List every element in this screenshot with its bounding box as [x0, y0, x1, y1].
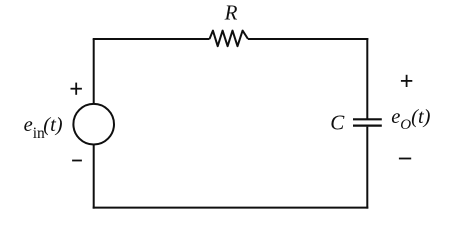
wire: right vertical lower segment (capacitor bottom plate to bottom-right corner) [366, 127, 368, 209]
minus sign (source, left) [72, 160, 82, 162]
voltage source e_in (circle) [73, 104, 114, 145]
wire: top horizontal left segment (top-left corner to resistor) [93, 38, 210, 40]
minus sign (capacitor, right) [399, 158, 411, 160]
wire: bottom horizontal (bottom-right corner to bottom-left corner) [93, 207, 369, 209]
wire: left vertical lower segment (bottom-left corner to source bottom) [93, 144, 95, 208]
wire: left vertical upper segment (source top to top-left corner) [93, 39, 95, 104]
svg-text:C: C [330, 111, 345, 135]
wire: top horizontal right segment (resistor to top-right corner) [248, 38, 368, 40]
capacitor C bottom plate [353, 124, 382, 126]
wire: right vertical upper segment (top-right corner to capacitor top plate) [366, 38, 368, 119]
resistor R (zigzag) [210, 31, 249, 47]
plus sign (source, left) [71, 83, 82, 95]
plus sign (capacitor, right) [401, 75, 412, 87]
svg-text:R: R [224, 1, 238, 25]
capacitor C top plate [353, 118, 382, 120]
